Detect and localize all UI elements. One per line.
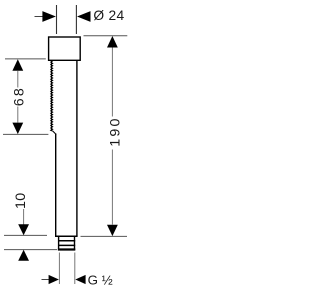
thread G1/2 left arrow	[49, 275, 59, 284]
thread bottom edge	[58, 248, 75, 250]
svg-text:68: 68	[11, 86, 27, 106]
thread ridge 2	[58, 244, 75, 246]
dimension 68 bottom extension line	[3, 133, 48, 135]
dimension 68 bottom arrow	[12, 123, 23, 135]
dimension 68 line lower	[17, 107, 19, 123]
dimension 68 line upper	[17, 71, 19, 88]
dimension 10 up arrow	[18, 250, 29, 261]
dimension 190 top extension line	[84, 35, 128, 37]
dimension Ø24 tail line	[35, 16, 45, 18]
dimension Ø24 left arrow	[42, 11, 56, 22]
thread G1/2 right arrow	[75, 275, 85, 284]
thread G1/2 left extension line	[58, 253, 60, 285]
thread G1/2 tail line	[42, 279, 50, 281]
dimension 190 bottom extension line	[81, 235, 128, 237]
body left edge lower	[55, 134, 57, 237]
svg-text:G ½: G ½	[88, 272, 113, 287]
svg-text:Ø 24: Ø 24	[93, 8, 124, 23]
thread ridge 1	[58, 240, 75, 242]
body bottom edge	[55, 235, 78, 237]
dimension 10 bottom extension line	[4, 249, 57, 251]
dimension 68 top extension line	[5, 58, 46, 60]
thread G1/2 right extension line	[74, 253, 76, 285]
dimension 190 top arrow	[107, 36, 118, 48]
shower head cap	[49, 37, 81, 60]
dimension 190 line lower	[111, 150, 113, 225]
svg-text:190: 190	[108, 116, 124, 146]
dimension 10 top extension line	[4, 234, 47, 236]
dimension Ø24 left extension line	[56, 5, 58, 34]
dimension 68 top arrow	[12, 59, 23, 70]
dimension Ø24 right extension line	[75, 5, 77, 34]
spray face serration backing line	[50, 61, 52, 131]
dimension 190 line upper	[111, 48, 113, 117]
dimension 190 bottom arrow	[107, 225, 118, 236]
spray face serration teeth	[51, 61, 56, 135]
body right edge	[76, 60, 78, 236]
dimension Ø24 right arrow	[77, 11, 91, 22]
dimension 10 line	[23, 209, 25, 225]
svg-text:10: 10	[13, 192, 29, 209]
thread body	[59, 236, 75, 249]
dimension 10 down arrow	[18, 224, 29, 235]
